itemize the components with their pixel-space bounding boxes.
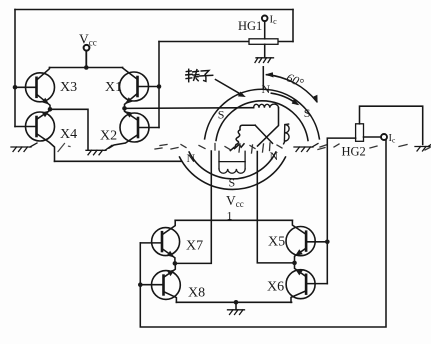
- wire HG2 right lead to Ic terminal: [364, 136, 382, 138]
- svg-text:X6: X6: [267, 280, 284, 295]
- wire HG1 terminal to plate: [264, 21, 266, 39]
- node X5/X6 output junction: [292, 261, 297, 266]
- terminal Ic of HG2: [381, 134, 387, 140]
- dimension arc 60 degrees: [267, 75, 317, 102]
- ground left below X4: [11, 143, 37, 152]
- rotor outer arc top: [205, 89, 320, 139]
- wire from HG1 ground down to rotor N pole: [262, 67, 264, 89]
- transistor X4: [15, 109, 55, 161]
- wire HG2 top lead: [360, 106, 423, 144]
- wire HG2 Ic down to bottom wire: [140, 140, 386, 327]
- wire X3/X4 output right and down: [50, 109, 88, 149]
- ground below X3/X4 output wire: [86, 145, 112, 155]
- svg-text:N: N: [262, 82, 271, 96]
- node X5 base tee: [325, 240, 330, 245]
- stator inner arc bottom: [189, 152, 276, 179]
- wire left frame vertical to X3/X4 bases: [14, 10, 16, 127]
- node X7/X8 output junction: [173, 261, 178, 266]
- ground below bottom bridge: [228, 310, 245, 315]
- wire X1/X2 output to motor top coil: [125, 107, 254, 110]
- wire HG1 box right edge: [292, 10, 294, 42]
- rotor core cross piece: [230, 125, 272, 150]
- transistor X7: [140, 220, 179, 263]
- svg-text:X2: X2: [100, 129, 117, 144]
- svg-text:S: S: [229, 176, 236, 190]
- transistor X6: [286, 263, 327, 302]
- rotation direction arrow: [271, 93, 297, 104]
- node X1 base tee: [157, 84, 162, 89]
- wire X1/X2 base column: [158, 42, 160, 128]
- terminal Vcc top: [84, 45, 90, 51]
- label 转子 rotor (drawn strokes): [186, 69, 213, 81]
- svg-text:X1: X1: [105, 80, 122, 95]
- node emitter rail center: [234, 300, 239, 305]
- wire stator left lead V1 to bottom bridge: [175, 151, 211, 263]
- wire upper bridge collector rail: [50, 67, 123, 69]
- svg-text:X5: X5: [268, 235, 285, 250]
- rotor inner arc top: [216, 101, 308, 141]
- wire top coil right lead down: [258, 108, 279, 146]
- fuzz dashes along motor midline left: [155, 143, 430, 153]
- stator outer arc bottom: [180, 157, 286, 189]
- svg-text:X8: X8: [188, 286, 205, 301]
- transistor X5: [286, 220, 327, 263]
- svg-text:HG1: HG1: [238, 19, 262, 33]
- transistor X1: [120, 68, 160, 109]
- svg-text:N: N: [187, 151, 196, 165]
- svg-text:X3: X3: [60, 80, 77, 95]
- node X3/X4 emitter junction: [48, 107, 53, 112]
- wire stator right lead V2 to bottom bridge: [257, 152, 294, 263]
- node X1/X2 emitter junction: [122, 106, 127, 111]
- svg-text:HG2: HG2: [342, 145, 366, 159]
- ground below HG1: [255, 58, 274, 63]
- node X7 base column top corner handled; node X8 base tee: [138, 282, 143, 287]
- ground right of HG2: [415, 145, 431, 152]
- wire top rail from left frame to HG1 box: [15, 9, 293, 11]
- svg-text:X7: X7: [186, 239, 203, 254]
- winding coil right phase: [284, 124, 290, 144]
- wire HG2 left lead to X5/X6 base column: [327, 138, 355, 284]
- winding coil top phase: [254, 104, 279, 108]
- terminal Ic of HG1: [262, 15, 268, 21]
- wire X4 emitter long run to motor: [55, 160, 182, 162]
- wire bottom bridge collector rail: [175, 219, 292, 221]
- svg-text:X4: X4: [60, 127, 77, 142]
- svg-text:S: S: [218, 108, 225, 122]
- transistor X3: [15, 68, 55, 110]
- stray mark below X4 right: [58, 144, 70, 152]
- wire HG1 box bottom left segment: [159, 41, 249, 43]
- arrow pointer from 转子 to rotor ring: [216, 80, 243, 96]
- transistor X2: [109, 108, 159, 148]
- node Vcc rail junction: [84, 65, 89, 70]
- hall sensor HG2 plate: [356, 124, 364, 142]
- svg-text:N: N: [270, 149, 279, 163]
- wire ground stem bottom bridge: [235, 302, 237, 310]
- svg-text:S: S: [304, 106, 311, 120]
- ground right of motor: [294, 144, 318, 152]
- wire HG1 box bottom to X1/X2 base column: [278, 41, 293, 43]
- wire Vcc to upper rail: [85, 51, 87, 68]
- hall sensor HG1 resistor plate: [249, 39, 278, 45]
- wire bottom bridge emitter rail: [176, 301, 291, 303]
- wire HG1 plate to ground: [264, 44, 266, 58]
- winding coil bottom phase: [219, 151, 245, 173]
- svg-text:Ic: Ic: [389, 133, 397, 145]
- transistor X8: [140, 263, 180, 302]
- node X3 base tee: [13, 85, 18, 90]
